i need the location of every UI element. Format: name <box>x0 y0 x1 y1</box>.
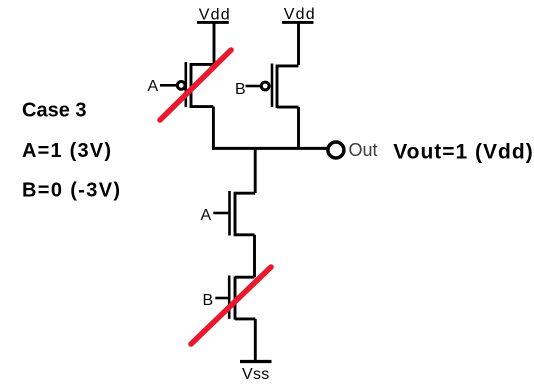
pmos A: gate lead wire <box>160 84 177 87</box>
svg-text:B: B <box>203 292 214 309</box>
nmos B: drain stub <box>235 276 255 279</box>
nmos B: channel <box>234 277 237 320</box>
nmos A: source stub <box>235 233 255 236</box>
wire: nmos B source down to Vss <box>254 319 257 362</box>
pmos B: gate bubble <box>261 82 269 90</box>
svg-text:A=1 (3V): A=1 (3V) <box>22 140 112 162</box>
pmos B: channel <box>276 65 279 109</box>
pmos B: gate lead wire <box>246 85 261 88</box>
wire: output bus down to nmos A drain <box>254 148 257 193</box>
power rail Vdd right: label <box>284 6 316 23</box>
power rail Vdd left: bar <box>197 21 229 24</box>
pmos A: gate plate <box>185 62 188 107</box>
wire: Vdd left to pmos A drain <box>213 22 216 64</box>
node Out: label <box>349 140 378 160</box>
pmos B: source stub <box>277 106 299 109</box>
nmos A: channel <box>234 192 237 236</box>
annotation: input A value <box>22 140 112 162</box>
svg-text:A: A <box>201 207 212 224</box>
svg-text:Out: Out <box>349 140 378 160</box>
nmos B: input label B <box>203 292 214 309</box>
pmos B: gate plate <box>271 64 274 108</box>
svg-text:Vdd: Vdd <box>284 6 316 23</box>
power rail Vss: bar <box>240 360 272 363</box>
wire: pmos B source down to output bus <box>297 107 300 148</box>
annotation: output value <box>393 141 534 164</box>
pmos A: input label A <box>148 78 159 95</box>
nmos B: gate lead wire <box>215 297 228 300</box>
nmos A: gate plate <box>228 191 231 236</box>
nmos A: gate lead wire <box>213 212 228 215</box>
nmos A: input label A <box>201 207 212 224</box>
svg-text:B: B <box>235 81 246 98</box>
annotation: case title <box>22 100 87 122</box>
pmos A: gate bubble <box>177 82 185 90</box>
wire: nmos A source to nmos B drain <box>253 235 256 277</box>
svg-text:A: A <box>148 78 159 95</box>
pmos A: source stub <box>191 105 213 108</box>
wire: pmos A source down to output bus <box>212 107 215 149</box>
svg-text:Case 3: Case 3 <box>22 100 87 122</box>
annotation: red off-slash over pmos A <box>160 50 231 120</box>
node Out: terminal circle <box>328 142 344 158</box>
pmos A: channel <box>190 63 193 108</box>
svg-text:Vout=1 (Vdd): Vout=1 (Vdd) <box>393 141 534 164</box>
annotation: input B value <box>22 180 121 202</box>
nmos A: drain stub <box>235 192 255 195</box>
pmos A: drain stub <box>191 63 214 66</box>
pmos B: input label B <box>235 81 246 98</box>
power rail Vdd left: label <box>199 6 231 23</box>
wire: output bus <box>212 147 327 150</box>
pmos B: drain stub <box>277 64 299 67</box>
nmos B: gate plate <box>228 276 231 319</box>
power rail Vdd right: bar <box>282 21 314 24</box>
power rail Vss: label <box>242 366 270 383</box>
svg-text:Vss: Vss <box>242 366 270 383</box>
wire: Vdd right to pmos B drain <box>297 22 300 65</box>
svg-text:B=0 (-3V): B=0 (-3V) <box>22 180 121 202</box>
annotation: red off-slash over nmos B <box>191 267 271 344</box>
svg-text:Vdd: Vdd <box>199 6 231 23</box>
nmos B: source stub <box>235 317 255 320</box>
